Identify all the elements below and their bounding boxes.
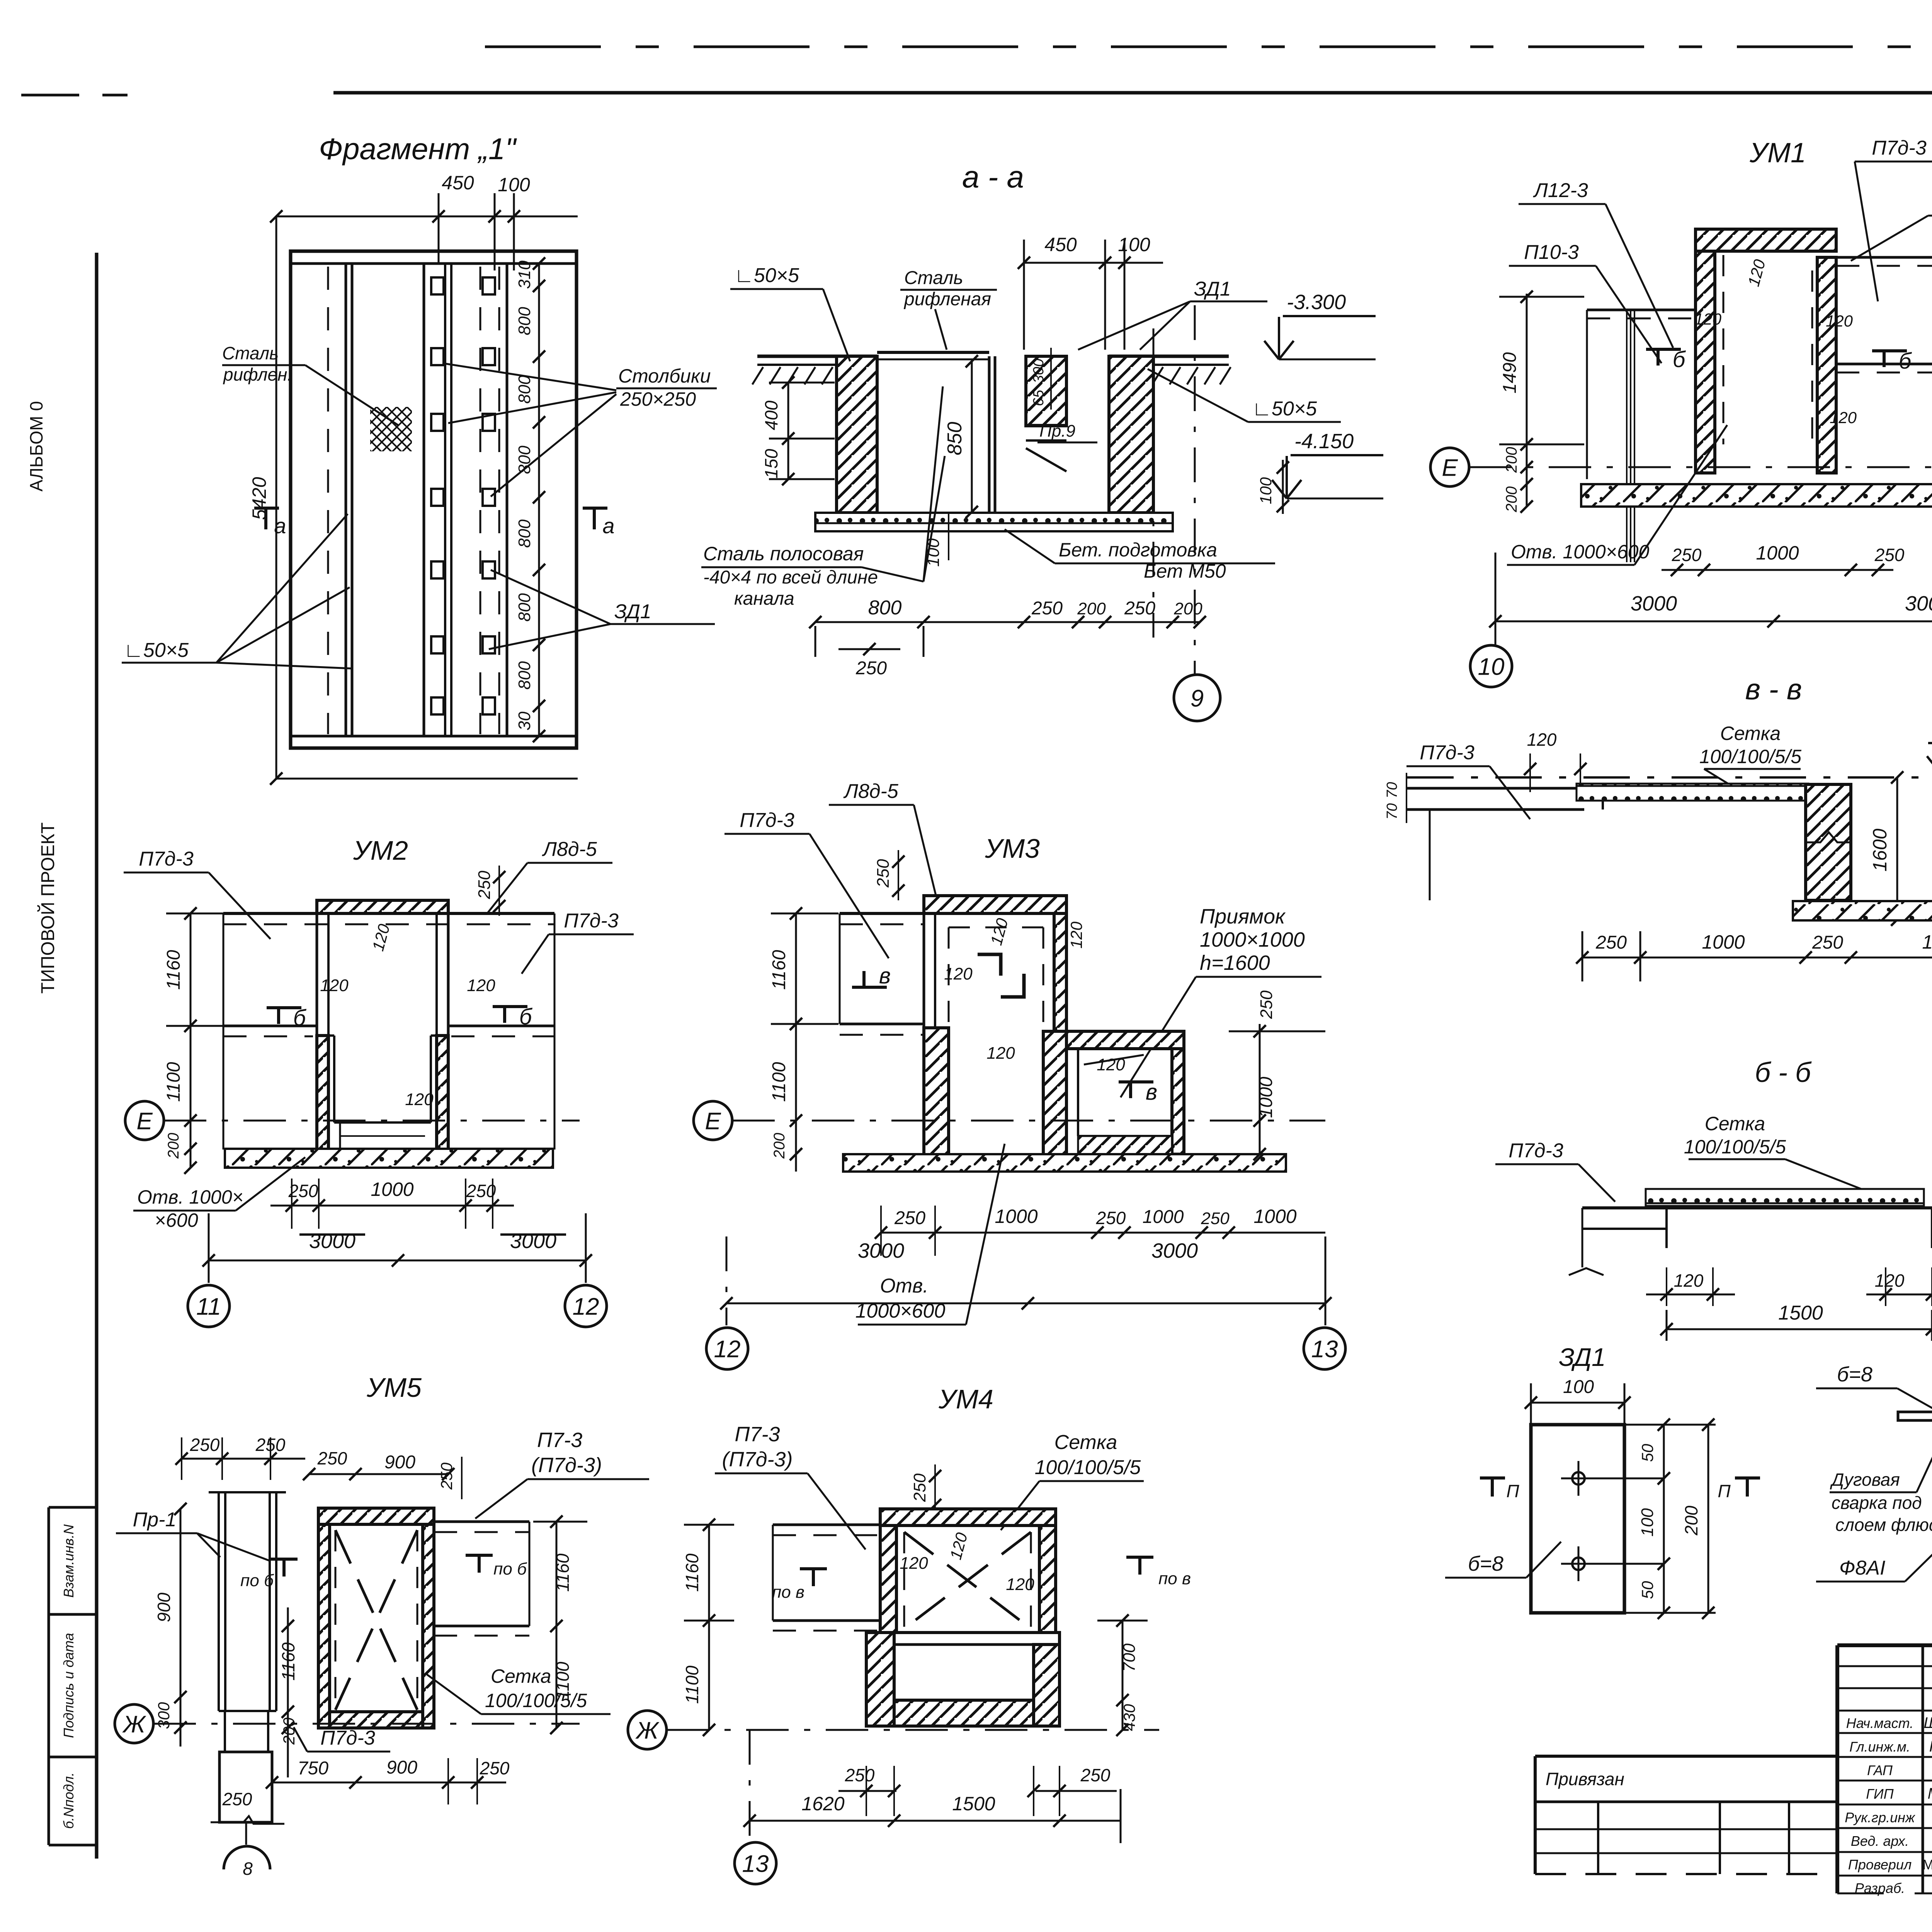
svg-text:а: а: [274, 514, 286, 538]
б-б dims 120: [1646, 1267, 1932, 1306]
svg-text:8: 8: [243, 1859, 253, 1879]
svg-text:800: 800: [515, 661, 534, 690]
svg-text:П7-3: П7-3: [537, 1429, 582, 1452]
svg-text:по в: по в: [772, 1583, 804, 1602]
УМ3 label Отв 1000x600: [855, 1144, 1005, 1325]
svg-text:9: 9: [1190, 685, 1204, 712]
УМ2 axis circle 12: [565, 1285, 607, 1327]
УМ1 label П10-3: [1509, 241, 1662, 363]
svg-text:700: 700: [1120, 1643, 1139, 1672]
УМ4 label Сетка: [1001, 1431, 1144, 1530]
a-a label L50x5 left: [730, 264, 850, 361]
title block row Разраб.: [1855, 1879, 1932, 1896]
svg-text:Приямок: Приямок: [1200, 905, 1286, 928]
svg-text:-3.300: -3.300: [1287, 291, 1346, 314]
svg-text:1000: 1000: [1253, 1206, 1296, 1227]
УМ4 dims 120: [900, 1531, 1034, 1594]
svg-text:100/100/5/5: 100/100/5/5: [485, 1690, 587, 1711]
svg-text:250: 250: [874, 859, 893, 888]
svg-text:Кричевский: Кричевский: [1929, 1738, 1932, 1755]
svg-text:Е: Е: [705, 1108, 721, 1134]
svg-text:120: 120: [1097, 1055, 1125, 1074]
svg-text:по б: по б: [240, 1571, 274, 1590]
в-в slab lines: [1407, 788, 1808, 900]
svg-text:ГАП: ГАП: [1867, 1762, 1893, 1778]
svg-text:1000: 1000: [1143, 1207, 1184, 1227]
svg-text:слоем флюса: слоем флюса: [1835, 1515, 1932, 1535]
svg-text:120: 120: [900, 1554, 928, 1573]
svg-text:900: 900: [386, 1757, 417, 1778]
УМ2 dim 3000 3000: [202, 1213, 592, 1283]
УМ3 inner dashed rect: [949, 927, 1043, 1090]
svg-text:Взам.инв.N: Взам.инв.N: [61, 1524, 77, 1598]
УМ2 axis circle 11: [188, 1285, 230, 1327]
svg-text:Сетка: Сетка: [491, 1665, 551, 1687]
svg-text:200: 200: [1077, 599, 1106, 618]
б-б label П7д-3 left: [1495, 1139, 1615, 1202]
svg-text:П7-3: П7-3: [735, 1423, 780, 1446]
в-в bottom dim chain: [1576, 931, 1932, 981]
a-a floor steel plate: [877, 352, 989, 359]
title block row Нач.маст.: [1846, 1714, 1932, 1731]
title block row Гл.инж.м.: [1849, 1738, 1932, 1755]
УМ2 tower inner step: [328, 1036, 437, 1148]
svg-text:Отв.: Отв.: [880, 1275, 928, 1297]
в-в elevation -3.300 чп: [1927, 718, 1932, 775]
УМ2 section marker б right: [493, 1004, 533, 1029]
svg-text:Рук.гр.инж: Рук.гр.инж: [1845, 1810, 1916, 1825]
svg-text:250: 250: [1201, 1209, 1230, 1228]
svg-text:250: 250: [1096, 1208, 1126, 1228]
svg-text:Сталь полосовая: Сталь полосовая: [703, 543, 864, 565]
УМ4 lower box ring: [866, 1633, 1060, 1726]
УМ4 title: [938, 1384, 993, 1414]
svg-text:11: 11: [196, 1293, 221, 1320]
Г-г label б=8: [1816, 1363, 1932, 1412]
svg-text:П7д-3: П7д-3: [740, 809, 794, 832]
svg-text:13: 13: [1311, 1336, 1338, 1362]
svg-text:Сетка: Сетка: [1705, 1113, 1765, 1134]
svg-text:б: б: [293, 1005, 307, 1031]
svg-text:450: 450: [1044, 234, 1077, 255]
УМ5 bottom dims 750 900 250: [266, 1757, 510, 1804]
svg-text:300: 300: [1031, 359, 1047, 383]
svg-text:Фрагмент „1": Фрагмент „1": [319, 132, 517, 166]
УМ4 marker по в left: [772, 1569, 827, 1602]
svg-text:ЗД1: ЗД1: [614, 600, 651, 623]
УМ3 axis circle 13: [1304, 1328, 1345, 1369]
УМ3 upper box right wall: [1043, 896, 1066, 1155]
svg-text:3000: 3000: [1151, 1239, 1198, 1262]
УМ3 left dim chain: [769, 907, 838, 1172]
svg-text:Отв. 1000×600: Отв. 1000×600: [1511, 541, 1649, 563]
sheet top dashed trim line: [485, 46, 1932, 48]
ЗД1 hole bottom: [1561, 1546, 1664, 1581]
a-a concrete bed: [815, 513, 1173, 531]
УМ4 bottom dims 250 250: [838, 1765, 1117, 1816]
УМ4 left wing lines: [773, 1525, 880, 1631]
svg-text:а: а: [602, 514, 614, 538]
fragment section marker Ta right: [583, 508, 615, 538]
УМ1 section marker б left: [1646, 347, 1686, 372]
УМ1 label Л8д-5: [1851, 191, 1932, 261]
УМ3 section marker в left: [852, 963, 891, 988]
svg-text:1100: 1100: [682, 1665, 702, 1704]
svg-text:МИЛКОВСКИЙ: МИЛКОВСКИЙ: [1922, 1856, 1932, 1872]
УМ2 mid slab lines: [223, 1026, 554, 1036]
svg-text:900: 900: [384, 1452, 415, 1473]
ЗД1 dim 200: [1681, 1418, 1714, 1619]
fragment bottom dim line: [276, 778, 578, 780]
svg-text:800: 800: [515, 519, 534, 548]
title block row Вед. арх.: [1851, 1832, 1932, 1849]
в-в top dashed line: [1407, 776, 1932, 779]
a-a dim 400 150 left: [761, 376, 835, 485]
fragment crosshatch patch: [370, 407, 412, 451]
svg-text:100: 100: [1563, 1377, 1594, 1397]
svg-text:65: 65: [1031, 389, 1047, 406]
svg-text:430: 430: [1120, 1704, 1138, 1731]
section б-б title: [1755, 1057, 1812, 1088]
svg-text:Ф8АΙ: Ф8АΙ: [1839, 1557, 1885, 1579]
УМ2 left dim chain: [163, 907, 232, 1174]
УМ3 upper box top band hatched: [924, 896, 1066, 913]
svg-text:120: 120: [1694, 310, 1722, 328]
svg-text:120: 120: [1674, 1270, 1704, 1291]
УМ2 title: [353, 835, 408, 866]
Г-г weld label Дуговая сварка: [1830, 1430, 1932, 1535]
svg-text:310: 310: [515, 260, 534, 289]
УМ5 bottom channel box 200: [225, 1711, 268, 1752]
svg-text:3000: 3000: [309, 1230, 355, 1253]
УМ1 label Л12-3: [1519, 179, 1673, 348]
svg-text:∟50×5: ∟50×5: [1252, 398, 1317, 420]
в-в label П7д-3: [1406, 742, 1530, 819]
title block outer: [1837, 1645, 1932, 1893]
svg-text:П: П: [1506, 1481, 1519, 1501]
svg-text:1000: 1000: [1702, 931, 1745, 953]
svg-text:Е: Е: [1442, 454, 1458, 481]
svg-text:400: 400: [761, 400, 781, 430]
УМ3 label П7д-3: [724, 809, 889, 958]
svg-text:Гл.инж.м.: Гл.инж.м.: [1849, 1739, 1910, 1755]
margin cells divider: [49, 1507, 97, 1845]
УМ4 dim 1620 1500: [743, 1730, 1121, 1843]
svg-text:100: 100: [498, 174, 530, 196]
в-в label Сетка: [1699, 723, 1801, 790]
svg-text:в: в: [879, 963, 891, 988]
svg-text:Л12-3: Л12-3: [1533, 179, 1588, 202]
б-б label Сетка: [1684, 1113, 1874, 1194]
УМ5 label П7д-3 bottom: [294, 1727, 390, 1752]
svg-text:1000: 1000: [1756, 542, 1799, 564]
УМ2 label Л8д-5: [487, 838, 612, 914]
УМ4 marker по в right: [1126, 1557, 1191, 1588]
в-в left small dims 70: [1384, 773, 1406, 823]
svg-text:3000: 3000: [858, 1239, 904, 1262]
УМ4 upper box inner dashed X: [896, 1526, 1039, 1633]
margin text Подпись и дата: [61, 1633, 77, 1738]
ЗД1 marker П right: [1718, 1478, 1760, 1501]
svg-text:1620: 1620: [801, 1793, 844, 1815]
УМ1 bottom dim 250 1000 250: [1662, 542, 1905, 576]
УМ1 right wing slab lines: [1836, 257, 1932, 479]
title block row Рук.гр.инж: [1845, 1809, 1932, 1826]
a-a elevation -3.300: [1264, 291, 1376, 359]
margin text б.Nподл.: [61, 1772, 77, 1829]
привязан table: [1535, 1756, 1837, 1874]
svg-text:1160: 1160: [682, 1553, 702, 1592]
УМ5 marker по б right: [466, 1555, 527, 1578]
Г-г label Ф8АI: [1816, 1542, 1932, 1582]
a-a middle walls: [989, 356, 1066, 514]
svg-text:1000: 1000: [1922, 931, 1932, 953]
УМ5 title: [366, 1372, 422, 1403]
svg-text:100: 100: [1638, 1508, 1657, 1537]
УМ5 right wing lines: [434, 1522, 529, 1636]
УМ5 left dim chain 900 300: [154, 1503, 187, 1747]
svg-text:250: 250: [1595, 932, 1627, 953]
svg-text:Ж: Ж: [122, 1711, 146, 1738]
a-a label Бет подготовка: [1005, 529, 1275, 582]
svg-text:100/100/5/5: 100/100/5/5: [1699, 746, 1801, 767]
fragment plan outer walls: [291, 251, 577, 748]
svg-text:1160: 1160: [553, 1553, 573, 1592]
svg-text:ГИП: ГИП: [1866, 1786, 1894, 1802]
svg-text:УМ2: УМ2: [353, 835, 408, 866]
svg-text:1000: 1000: [1256, 1077, 1276, 1118]
svg-text:П7д-3: П7д-3: [139, 848, 194, 870]
УМ4 axis circle 13: [735, 1842, 776, 1884]
УМ2 concrete bed: [225, 1149, 553, 1168]
svg-text:250: 250: [480, 1758, 510, 1778]
УМ2 bottom dims 250 1000 250: [270, 1179, 514, 1229]
svg-text:Пр.9: Пр.9: [1039, 422, 1075, 440]
section a-a title: [962, 160, 1024, 194]
a-a ground line left: [752, 356, 877, 384]
svg-text:100: 100: [1118, 234, 1150, 255]
svg-text:в - в: в - в: [1745, 673, 1802, 706]
svg-text:∟50×5: ∟50×5: [124, 639, 189, 662]
УМ5 marker по б left: [240, 1559, 298, 1590]
svg-text:Сетка: Сетка: [1054, 1431, 1117, 1454]
УМ3 label Л8д-5 top: [829, 780, 939, 908]
svg-text:30: 30: [515, 711, 534, 730]
б-б slab: [1582, 1208, 1932, 1267]
svg-text:3000: 3000: [510, 1230, 556, 1253]
svg-text:250: 250: [317, 1448, 347, 1468]
УМ3 label Приямок: [1121, 905, 1321, 1097]
a-a bottom dim chain: [809, 597, 1206, 679]
УМ3 приямок top band hatched: [1066, 1031, 1184, 1049]
svg-text:Нач.маст.: Нач.маст.: [1846, 1715, 1914, 1731]
svg-text:250: 250: [466, 1181, 496, 1201]
УМ3 dims 120: [944, 916, 1125, 1074]
УМ3 приямок right wall hatched: [1172, 1031, 1184, 1154]
svg-text:ТИПОВОЙ ПРОЕКТ: ТИПОВОЙ ПРОЕКТ: [37, 822, 58, 993]
в-в dim 120: [1524, 730, 1587, 792]
УМ2 label П7д-3 right: [522, 910, 634, 974]
УМ3 top slab lines: [840, 913, 924, 1024]
svg-text:250: 250: [190, 1435, 220, 1455]
в-в concrete bed: [1793, 901, 1932, 920]
УМ5 top dims 250 250: [175, 1435, 305, 1480]
svg-text:50: 50: [1638, 1581, 1656, 1599]
svg-text:120: 120: [1527, 730, 1557, 750]
svg-text:П: П: [1718, 1481, 1731, 1501]
УМ5 inner dashed X: [335, 1530, 417, 1710]
svg-text:б=8: б=8: [1837, 1363, 1872, 1386]
svg-text:800: 800: [868, 597, 902, 619]
УМ3 приямок inner lines: [1078, 1049, 1172, 1154]
УМ1 dim 3000 3000: [1489, 553, 1932, 645]
svg-text:Отв. 1000×: Отв. 1000×: [137, 1186, 243, 1208]
УМ3 bottom dim chain: [875, 1206, 1325, 1256]
ЗД1 hole top: [1561, 1461, 1664, 1496]
fragment 1 title: [319, 132, 517, 166]
fragment column squares strip 2: [483, 277, 495, 714]
a-a label Сталь полосовая: [701, 386, 945, 609]
ЗД1 title: [1559, 1343, 1606, 1371]
svg-text:1100: 1100: [769, 1062, 789, 1102]
fragment top dims 450 100: [276, 172, 578, 270]
svg-text:70: 70: [1384, 782, 1400, 798]
svg-text:1000: 1000: [371, 1179, 413, 1200]
svg-text:-40×4 по всей длине: -40×4 по всей длине: [703, 567, 878, 588]
a-a dims 65 300: [1031, 348, 1051, 410]
svg-text:канала: канала: [734, 588, 794, 609]
УМ1 left dim chain: [1499, 291, 1584, 513]
svg-text:10: 10: [1478, 653, 1505, 680]
УМ1 axis circle Е: [1430, 448, 1932, 486]
ЗД1 plate: [1531, 1425, 1624, 1613]
УМ3 right dim chain: [1229, 990, 1325, 1160]
УМ2 tower right wall: [437, 900, 448, 1150]
б-б break marks: [1569, 1268, 1932, 1275]
svg-text:П7д-3: П7д-3: [1420, 742, 1475, 764]
УМ5 axis circle Ж: [115, 1704, 580, 1743]
svg-text:Столбики: Столбики: [618, 365, 711, 387]
svg-text:б: б: [519, 1004, 533, 1029]
УМ4 dim 250 top: [910, 1464, 941, 1515]
a-a label L50x5 right: [1148, 369, 1341, 422]
УМ5 label П7-3 (П7д-3): [475, 1429, 649, 1519]
fragment right dim chain 800: [515, 257, 545, 742]
УМ3 section marker в lower: [1119, 1080, 1157, 1105]
svg-text:120: 120: [944, 964, 973, 983]
УМ5 dims 250 900: [303, 1448, 462, 1499]
УМ2 axis circle Е: [125, 1101, 580, 1140]
svg-text:h=1600: h=1600: [1200, 951, 1270, 975]
б-б dim 1500: [1660, 1302, 1932, 1341]
УМ1 left wing slab lines: [1587, 310, 1696, 479]
УМ1 central walls hatched: [1696, 229, 1836, 473]
svg-text:70: 70: [1384, 803, 1400, 820]
svg-text:250: 250: [475, 871, 494, 900]
svg-text:300: 300: [155, 1702, 173, 1729]
УМ2 top slab lines: [223, 913, 554, 1150]
УМ4 upper box hatched ring: [880, 1509, 1056, 1633]
svg-text:-4.150: -4.150: [1294, 430, 1354, 453]
svg-text:П10-3: П10-3: [1524, 241, 1579, 264]
svg-text:100/100/5/5: 100/100/5/5: [1684, 1136, 1786, 1158]
в-в wall hatched left: [1806, 784, 1851, 900]
УМ1 inner dashed walls: [1723, 255, 1812, 444]
УМ1 label Отв 1000x600: [1507, 425, 1727, 565]
УМ3 mid slab line: [840, 1024, 924, 1035]
svg-text:250: 250: [1031, 598, 1063, 619]
УМ5 label Сетка: [425, 1665, 611, 1714]
a-a dim 100 bed: [924, 514, 949, 567]
svg-text:Подпись и дата: Подпись и дата: [61, 1633, 77, 1738]
УМ5 vertical channel: [209, 1492, 286, 1711]
a-a dim 850: [944, 355, 978, 518]
svg-text:рифленая: рифленая: [903, 289, 991, 310]
svg-text:200: 200: [165, 1133, 182, 1159]
svg-text:Сетка: Сетка: [1720, 723, 1781, 744]
svg-text:Е: Е: [136, 1108, 153, 1134]
svg-text:(П7д-3): (П7д-3): [722, 1448, 793, 1471]
svg-text:1160: 1160: [163, 950, 184, 990]
a-a label ЗД1: [1078, 278, 1267, 350]
svg-text:П7д-3: П7д-3: [564, 910, 619, 932]
УМ3 dim 250 top: [874, 850, 905, 900]
axis circle 9: [1174, 675, 1220, 721]
svg-text:Сталь: Сталь: [904, 268, 963, 288]
svg-text:120: 120: [1826, 312, 1853, 330]
svg-text:Вед. арх.: Вед. арх.: [1851, 1833, 1909, 1849]
УМ2 label Отв 1000x600: [133, 1157, 305, 1231]
svg-text:б=8: б=8: [1468, 1552, 1503, 1575]
svg-text:150: 150: [761, 449, 781, 478]
svg-text:250: 250: [855, 658, 887, 679]
title block row Проверил: [1848, 1856, 1932, 1872]
svg-text:250: 250: [1874, 545, 1905, 565]
УМ5 right dim chain: [533, 1515, 587, 1734]
УМ5 bottom channel box 250: [211, 1752, 284, 1824]
svg-text:250: 250: [1812, 932, 1843, 953]
svg-text:200: 200: [771, 1133, 788, 1159]
svg-text:Проверил: Проверил: [1848, 1857, 1912, 1872]
svg-text:120: 120: [986, 1044, 1015, 1063]
svg-text:1100: 1100: [163, 1062, 184, 1102]
svg-text:750: 750: [298, 1758, 328, 1779]
в-в dim 1600: [1869, 771, 1903, 926]
a-a left wall hatched: [837, 356, 877, 513]
svg-text:УМ1: УМ1: [1749, 138, 1806, 168]
УМ3 axis circle Е: [694, 1101, 1325, 1140]
fragment section marker Ta left: [254, 508, 286, 538]
svg-text:250×250: 250×250: [620, 388, 696, 410]
УМ1 label П7д-3: [1855, 137, 1932, 301]
a-a ground line right: [1109, 356, 1231, 384]
УМ1 section marker б right: [1872, 349, 1912, 374]
title block left rows: [1837, 1666, 1932, 1876]
УМ5 main box hatched ring: [318, 1508, 434, 1728]
УМ1 opening centerlines: [1627, 311, 1634, 562]
sheet left border line: [95, 253, 99, 1859]
svg-text:200: 200: [1173, 599, 1202, 618]
svg-text:12: 12: [573, 1293, 599, 1320]
УМ4 axis circle Ж: [628, 1711, 1159, 1749]
svg-text:250: 250: [1257, 990, 1276, 1019]
svg-text:13: 13: [742, 1850, 769, 1877]
svg-text:АЛЬБОМ 0: АЛЬБОМ 0: [26, 401, 46, 492]
svg-text:250: 250: [1672, 545, 1702, 565]
svg-text:1600: 1600: [1869, 828, 1891, 871]
svg-text:×600: ×600: [155, 1209, 198, 1231]
svg-text:250: 250: [437, 1462, 456, 1490]
